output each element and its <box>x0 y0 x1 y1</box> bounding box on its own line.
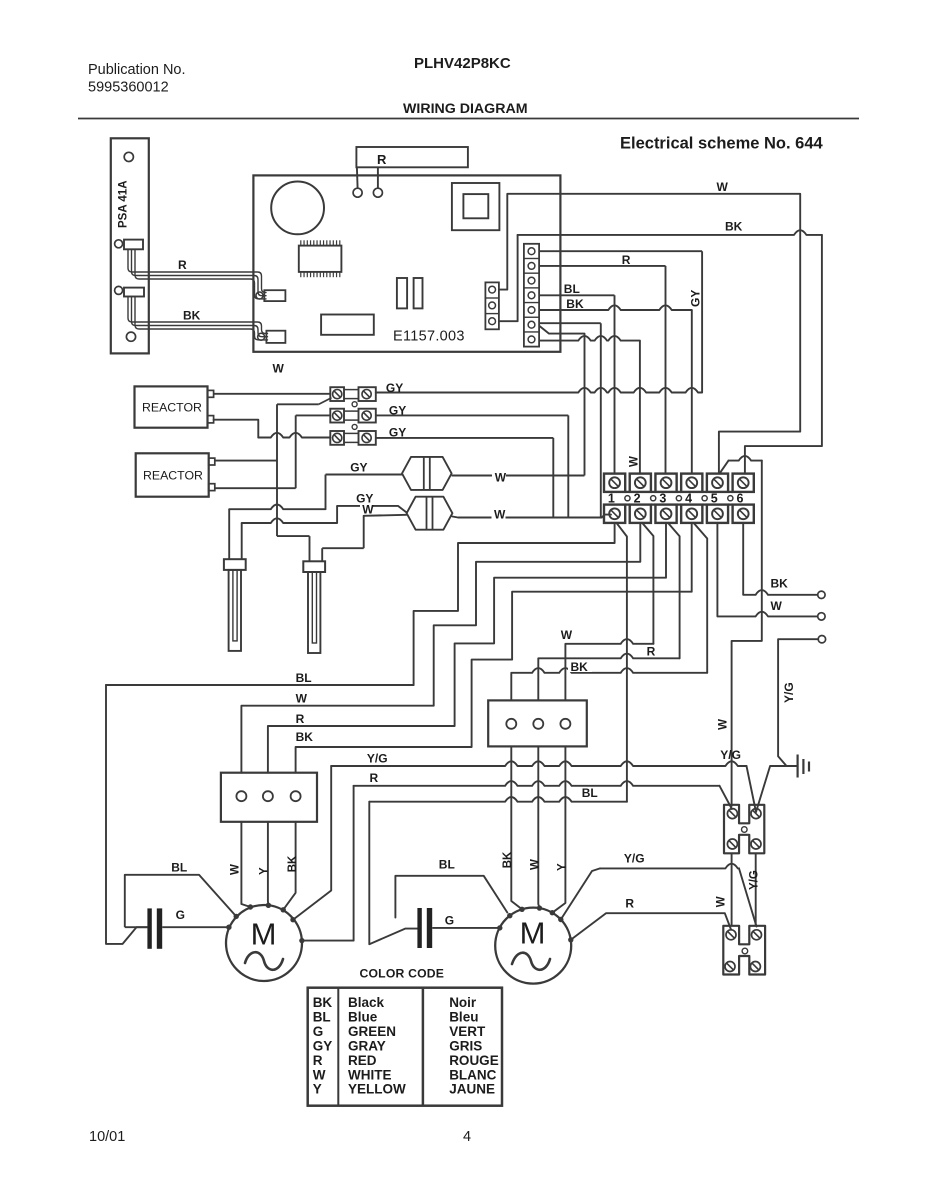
svg-text:PLHV42P8KC: PLHV42P8KC <box>414 55 511 72</box>
svg-text:BL: BL <box>296 671 312 685</box>
svg-text:GY: GY <box>389 404 406 418</box>
svg-text:BL: BL <box>564 282 580 296</box>
svg-text:R: R <box>647 645 656 659</box>
svg-text:Y: Y <box>258 867 270 875</box>
svg-text:R: R <box>313 1053 323 1068</box>
svg-text:R: R <box>296 712 305 726</box>
svg-text:GY: GY <box>350 461 367 475</box>
svg-text:Y: Y <box>313 1082 322 1097</box>
svg-text:R: R <box>625 897 634 911</box>
svg-text:GREEN: GREEN <box>348 1024 396 1039</box>
svg-text:BL: BL <box>439 858 455 872</box>
svg-text:W: W <box>230 864 242 875</box>
svg-text:Y/G: Y/G <box>782 682 796 703</box>
svg-text:W: W <box>530 859 542 870</box>
svg-text:BK: BK <box>313 995 333 1010</box>
svg-text:5995360012: 5995360012 <box>88 80 169 96</box>
svg-text:W: W <box>629 456 641 467</box>
svg-text:REACTOR: REACTOR <box>143 469 203 483</box>
svg-text:RED: RED <box>348 1053 377 1068</box>
svg-text:4: 4 <box>463 1129 471 1145</box>
svg-text:REACTOR: REACTOR <box>142 401 202 415</box>
svg-text:6: 6 <box>737 492 744 506</box>
svg-text:WIRING DIAGRAM: WIRING DIAGRAM <box>403 101 528 117</box>
svg-text:PSA 41A: PSA 41A <box>118 180 130 228</box>
svg-text:WHITE: WHITE <box>348 1067 392 1082</box>
svg-text:5: 5 <box>711 492 718 506</box>
svg-text:3: 3 <box>659 492 666 506</box>
svg-text:Y: Y <box>557 863 569 871</box>
svg-text:Noir: Noir <box>449 995 477 1010</box>
svg-text:COLOR CODE: COLOR CODE <box>360 967 445 981</box>
svg-text:Black: Black <box>348 995 385 1010</box>
svg-text:ROUGE: ROUGE <box>449 1053 499 1068</box>
svg-text:BL: BL <box>582 786 598 800</box>
svg-text:JAUNE: JAUNE <box>449 1082 495 1097</box>
svg-text:W: W <box>771 599 783 613</box>
svg-text:BL: BL <box>171 861 187 875</box>
svg-text:BK: BK <box>771 577 789 591</box>
svg-text:R: R <box>178 258 187 272</box>
svg-text:G: G <box>445 914 454 928</box>
svg-text:BK: BK <box>183 309 201 323</box>
svg-text:10/01: 10/01 <box>89 1129 125 1145</box>
svg-text:Y/G: Y/G <box>749 870 761 890</box>
svg-text:W: W <box>494 508 506 522</box>
svg-text:BLANC: BLANC <box>449 1067 496 1082</box>
svg-text:Y/G: Y/G <box>720 748 741 762</box>
svg-text:Publication No.: Publication No. <box>88 62 186 78</box>
svg-text:W: W <box>273 362 285 376</box>
svg-text:W: W <box>718 719 730 730</box>
svg-text:BL: BL <box>313 1009 331 1024</box>
svg-text:YELLOW: YELLOW <box>348 1082 406 1097</box>
svg-text:BK: BK <box>571 660 589 674</box>
svg-text:W: W <box>717 180 729 194</box>
svg-text:R: R <box>370 771 379 785</box>
svg-text:BK: BK <box>566 297 584 311</box>
svg-text:W: W <box>495 471 507 485</box>
svg-text:GRAY: GRAY <box>348 1038 386 1053</box>
svg-text:R: R <box>377 152 387 167</box>
svg-text:GY: GY <box>689 290 703 307</box>
svg-text:Y/G: Y/G <box>367 752 388 766</box>
svg-text:E1157.003: E1157.003 <box>393 329 465 345</box>
svg-text:4: 4 <box>685 492 692 506</box>
svg-text:Bleu: Bleu <box>449 1009 478 1024</box>
svg-text:1: 1 <box>608 492 615 506</box>
svg-text:BK: BK <box>725 220 743 234</box>
svg-text:Electrical scheme No. 644: Electrical scheme No. 644 <box>620 135 824 153</box>
svg-text:W: W <box>313 1067 326 1082</box>
svg-text:VERT: VERT <box>449 1024 486 1039</box>
svg-text:BK: BK <box>296 730 314 744</box>
svg-text:GY: GY <box>313 1038 333 1053</box>
svg-text:M: M <box>520 916 546 951</box>
svg-text:BK: BK <box>502 851 514 868</box>
svg-text:2: 2 <box>634 492 641 506</box>
svg-text:G: G <box>313 1024 324 1039</box>
svg-text:BK: BK <box>287 855 299 872</box>
svg-text:R: R <box>622 253 631 267</box>
svg-text:W: W <box>715 896 727 907</box>
svg-text:Blue: Blue <box>348 1009 378 1024</box>
svg-text:G: G <box>176 908 185 922</box>
svg-text:GY: GY <box>389 426 406 440</box>
svg-text:W: W <box>561 628 573 642</box>
svg-text:Y/G: Y/G <box>624 852 645 866</box>
svg-text:GY: GY <box>386 381 403 395</box>
svg-text:W: W <box>362 503 374 517</box>
svg-text:M: M <box>251 917 277 952</box>
svg-text:W: W <box>296 692 308 706</box>
svg-text:GRIS: GRIS <box>449 1038 482 1053</box>
